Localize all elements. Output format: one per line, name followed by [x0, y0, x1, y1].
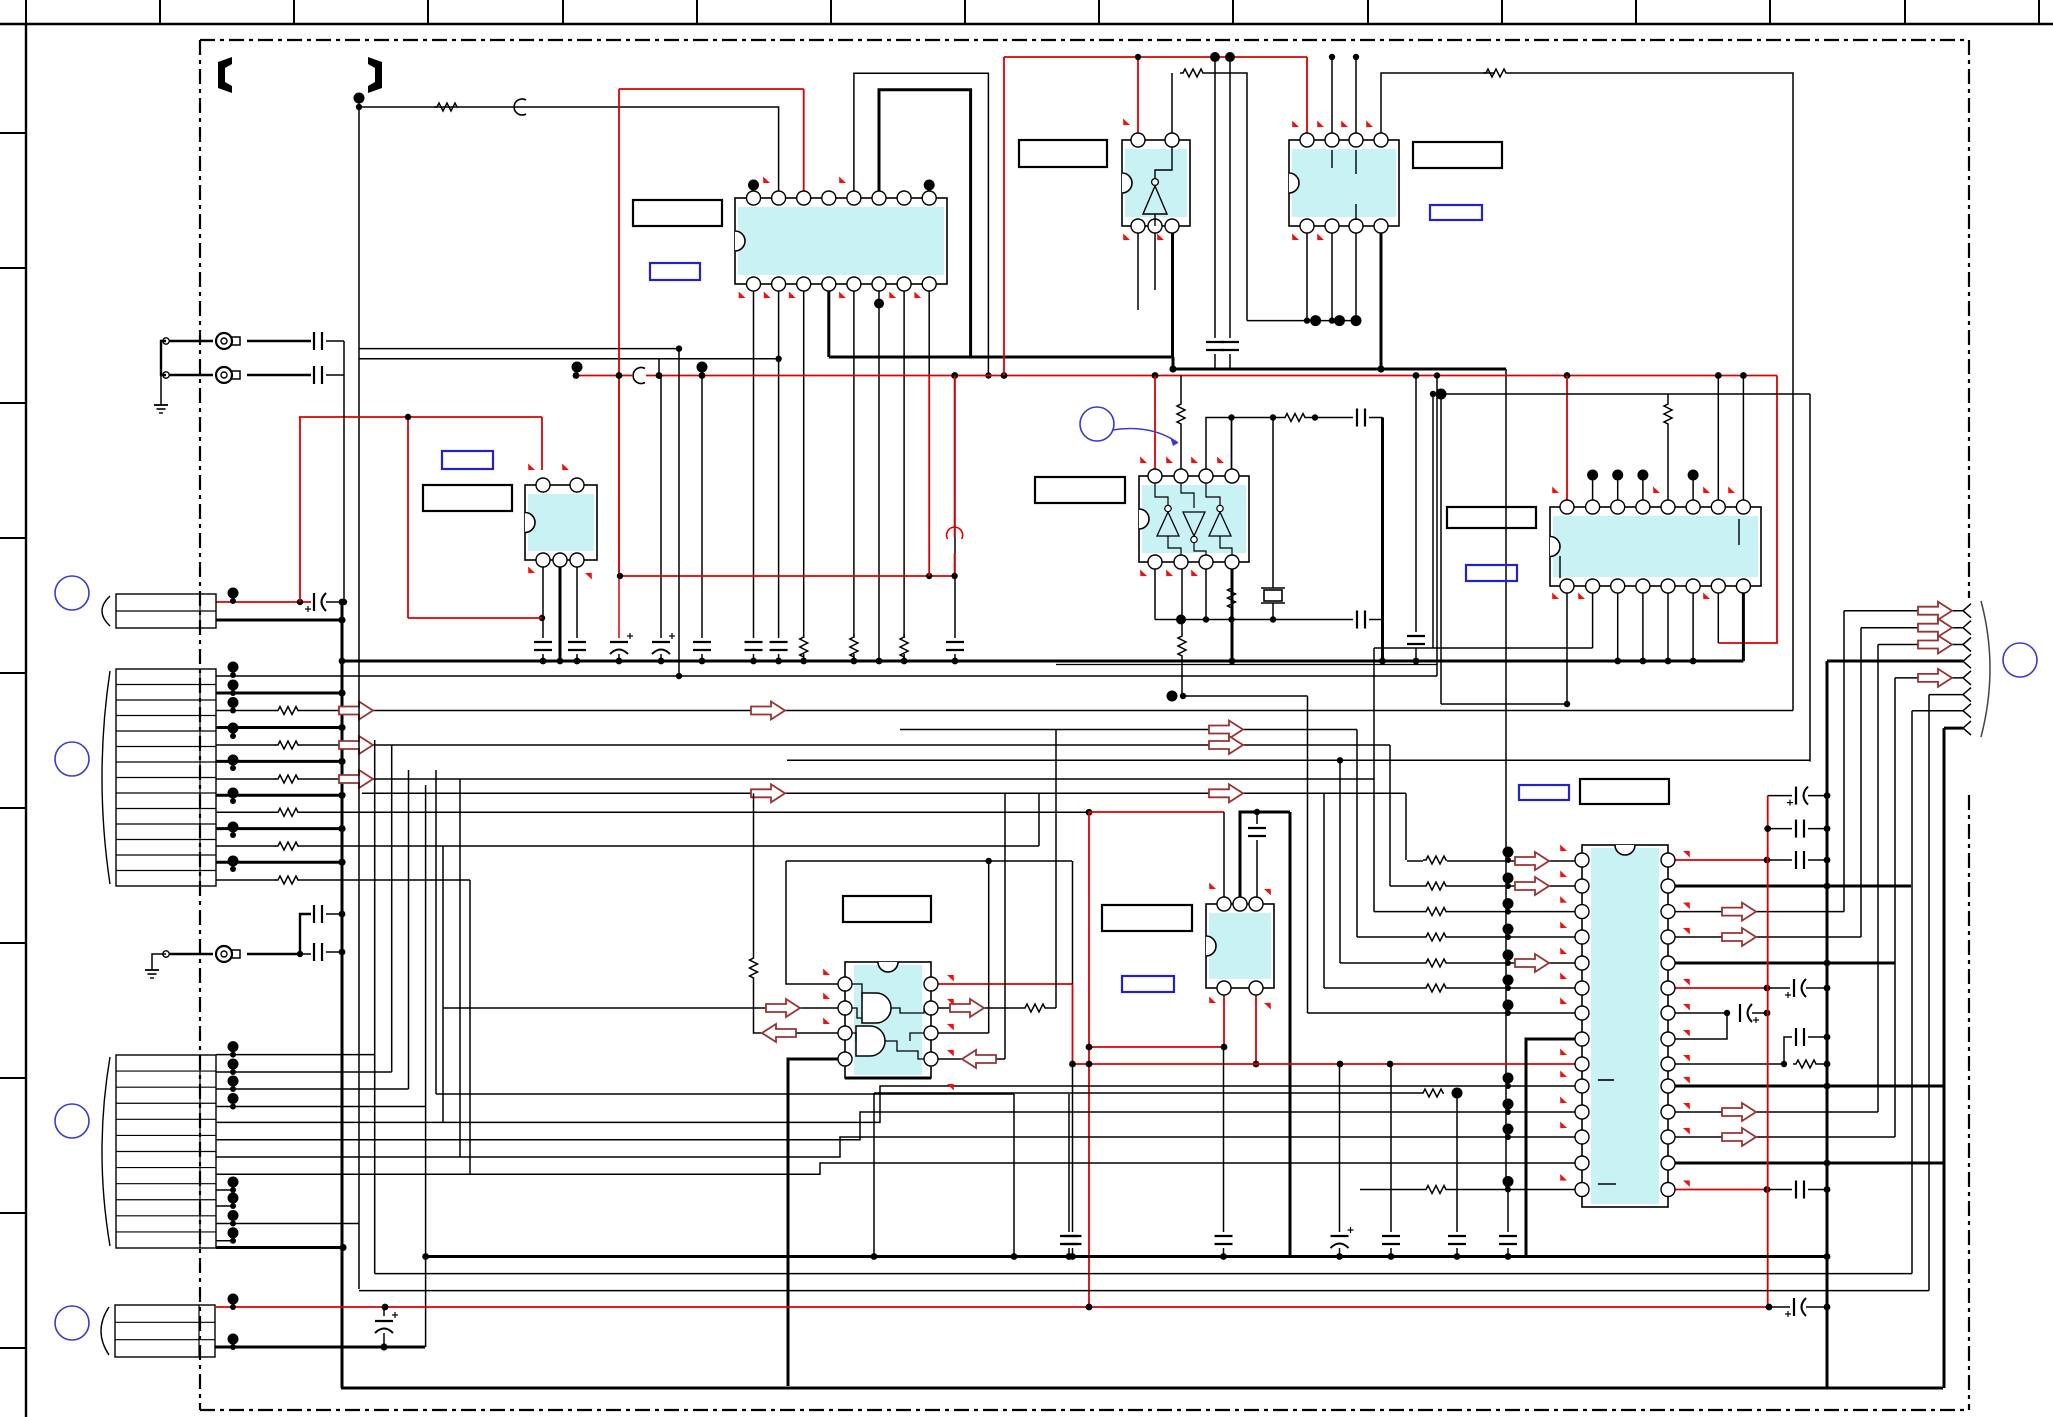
arrow IC9 in 2: [1515, 877, 1549, 895]
wire thick gnd y369: [1173, 357, 1506, 369]
part label box U2: [423, 485, 512, 511]
capacitor C-j3: [313, 905, 315, 923]
ground G2: [145, 969, 159, 971]
resistor R-r1: [1793, 1060, 1817, 1068]
inverter symbol U3: [1143, 147, 1172, 226]
red wire IC8 pin2 bottom: [1255, 995, 1257, 1064]
wire CN5 w8 thick: [1944, 727, 1963, 730]
arrow IC9 out 4: [1722, 1128, 1756, 1146]
wire y696 line: [1183, 695, 1308, 697]
arrow mid 2: [751, 784, 785, 802]
wire top-left L to IC1 pin2: [358, 98, 360, 675]
capacitor C-d1 riser: [1214, 57, 1216, 338]
capacitor C-g1 electrolytic: [1793, 1298, 1795, 1316]
crystal X1: [1272, 418, 1274, 589]
wire thick gnd y357: [829, 356, 1173, 359]
capacitor C-b6 riser x955: [954, 376, 956, 639]
note circle 3: [55, 1104, 89, 1138]
wire y348 segment: [359, 348, 679, 350]
junction dot: [874, 299, 884, 309]
red net: IC5 pin1 drop: [1154, 376, 1156, 470]
pin flags U4: [1290, 120, 1375, 242]
pin flags U5: [1138, 456, 1226, 578]
wire IC7 left pin1: [786, 861, 845, 984]
arrow CN5 2: [1918, 619, 1952, 637]
arrow CN5 5: [1918, 669, 1952, 687]
wire IC6 bottom pins: [1566, 593, 1568, 704]
red wire IC9 left pin9 handled above: [1575, 1063, 1582, 1065]
note circle 5: [2003, 643, 2037, 677]
arrow IC9 out 1: [1722, 903, 1756, 921]
ref label U8: [1122, 976, 1174, 992]
resistors feeding IC9: [1423, 856, 1447, 864]
capacitor C-r2 electrolytic: [1793, 979, 1795, 997]
connector CN4: [101, 1305, 215, 1357]
op-amp U1 16-pin IC: [735, 191, 947, 291]
capacitor C-f2: [1072, 1064, 1074, 1232]
wire IC9 right pin4: [1675, 936, 1861, 938]
wire thick y1347 CN4: [215, 1346, 425, 1349]
red bus y57 dots: [1135, 54, 1141, 60]
wire long horizontals mid: [362, 730, 1406, 794]
wire IC7 right pin4: [938, 1058, 1005, 1060]
wire IC7 left pin4 thick: [788, 1059, 838, 1386]
wire staircase verticals: [1308, 648, 1407, 1013]
connector pin dots CN1: [228, 588, 239, 599]
wire IC7 right pin2: [938, 1007, 1022, 1009]
capacitor C-d2 riser: [1229, 57, 1231, 338]
wire x1056 up: [1055, 730, 1057, 1009]
wire x1810 drop: [1809, 394, 1811, 762]
capacitor C-e3: [1407, 635, 1425, 637]
arrow mid 5: [1209, 784, 1243, 802]
capacitor C-e2: [1356, 611, 1358, 629]
inner marks U6: [1738, 519, 1740, 545]
wire IC9 right pin11: [1675, 1111, 1878, 1113]
pin flags U6: [1550, 486, 1737, 601]
capacitor C-t3: [1768, 828, 1792, 830]
red trunk x1767: [1767, 796, 1769, 1307]
arrow gate out right: [950, 999, 984, 1017]
arrow IC9 in 3: [1515, 954, 1549, 972]
red net: main bus y375: [576, 375, 1777, 377]
wire x1416 cap riser: [1415, 376, 1417, 633]
red wire IC9 right pin6: [1675, 987, 1767, 989]
wire trunk vertical x342: [341, 602, 344, 1388]
wire x1433 drop: [1432, 394, 1434, 648]
part label box U6: [1447, 507, 1536, 528]
connector CN3: [102, 1055, 216, 1248]
connector CN5 bracket: [1981, 601, 1990, 737]
wire y394 line: [1433, 393, 1810, 395]
wire x1039 riser: [1038, 793, 1040, 846]
resistors on CN2 rows: [275, 707, 299, 715]
wire IC5 bottom pins: [1154, 569, 1156, 620]
wire companion line under bus: [1056, 664, 1437, 666]
ring terminal J3: [163, 951, 169, 957]
wire IC1 pin6 thick loop: [879, 90, 971, 357]
wire IC7 left pin2: [443, 1007, 838, 1009]
arrow mid 4: [1209, 736, 1243, 754]
capacitor C-f3: [1223, 1047, 1225, 1232]
AND gate B: [856, 1026, 885, 1056]
connector CN1: [102, 594, 216, 628]
arrow CN5 3: [1918, 636, 1952, 654]
hex inverter U5: [1139, 469, 1249, 569]
wire x425 link: [422, 1253, 429, 1260]
wire CN5 w7: [1912, 710, 1963, 712]
wire x1441 drop: [1440, 394, 1442, 704]
capacitor C-r3 electrolytic: [1739, 1004, 1741, 1022]
capacitor C-j1: [313, 332, 315, 350]
reset IC U8: [1206, 897, 1274, 995]
capacitor C-r4 loop: [1784, 1037, 1792, 1064]
pin flags U8: [1207, 882, 1274, 1009]
wire bottom bus y1386: [341, 1387, 1943, 1390]
capacitor C-b1: [534, 641, 552, 643]
gate internal wires: [852, 984, 924, 1059]
inner marks U9: [1598, 1079, 1614, 1081]
pin flags U7: [821, 968, 957, 1090]
red net IC8 supply: [1089, 812, 1224, 1307]
inverter U3: [1122, 133, 1190, 233]
wire IC4 bottom risers: [1306, 233, 1308, 321]
junction dots on bus: [339, 658, 1697, 665]
ref label U4: [1430, 205, 1482, 220]
regulator U2 5-pin IC: [525, 478, 597, 567]
wire y358 segment: [359, 358, 779, 360]
red wire IC8 pin1 bottom: [1089, 995, 1224, 1047]
junction dot: [539, 615, 545, 621]
wire IC8 pin1 top: [1223, 812, 1225, 897]
wire IC9 right pin13 thick: [1675, 1162, 1943, 1165]
red net: IC2 supply loop: [299, 417, 542, 618]
wire IC1 pin8 stub: [928, 185, 930, 192]
red wire IC7 right pin1: [938, 984, 1073, 1063]
arrow IC9 out 3: [1722, 1103, 1756, 1121]
capacitor C-r5: [1795, 1181, 1797, 1199]
stub dots above bus: [576, 367, 578, 376]
frame top ruler line: [0, 23, 2053, 25]
capacitor C-f6: [1456, 1093, 1458, 1232]
arrow out 3: [339, 770, 373, 788]
arrow out 2: [339, 736, 373, 754]
ground G1: [154, 404, 168, 406]
red net: x954 vertical: [954, 376, 956, 538]
wire IC9 right pin2 thick: [1675, 885, 1911, 888]
wire x874 drop: [873, 1093, 875, 1257]
pin flags U1: [736, 176, 922, 300]
wire IC4 pin riser top: [1331, 57, 1333, 133]
capacitor C-t2: [1768, 795, 1792, 797]
capacitor C-b2: [568, 641, 586, 643]
wire IC8 pin2 thick loop: [1240, 812, 1290, 897]
part label box U1: [633, 200, 722, 226]
connector CN5 chevrons: [1963, 604, 1971, 735]
capacitor C-a2: [770, 641, 788, 643]
resistor R-e1: [1282, 414, 1306, 422]
pin flags U9: [1558, 844, 1693, 1187]
capacitor C-cn1 electrolytic: [313, 593, 315, 611]
junction dot: [986, 858, 992, 864]
AND gate A: [862, 993, 891, 1023]
ref label U9: [1519, 785, 1569, 800]
red net: top-left feed to IC1 pin3: [619, 89, 804, 576]
wire hop: [514, 99, 526, 115]
wire IC1 pin1 stub: [753, 185, 755, 192]
wire IC8 pin3 cap: [1256, 812, 1258, 824]
wire x1072 black segment: [1072, 861, 1074, 984]
wire CN2 row wires: [216, 676, 1793, 880]
connector pin dots CN2: [228, 662, 239, 873]
pin flags U3: [1121, 118, 1166, 242]
wire ring3 up loop: [300, 914, 311, 954]
wire y648: [1374, 647, 1593, 649]
capacitor C-b3 riser x619: [618, 376, 620, 639]
note circle 6: [1080, 407, 1114, 441]
junction dot: [354, 93, 365, 104]
resistor R-a2: [850, 634, 858, 658]
capacitor C-a1: [745, 641, 763, 643]
inner marks U4: [1331, 150, 1333, 168]
arrow into gate right: [962, 1050, 996, 1068]
part label box U7: [843, 896, 931, 922]
capacitor C-j2: [313, 366, 315, 384]
wire x1231 resistor chain: [1231, 418, 1233, 586]
wire bottom bus y1256: [425, 1255, 1827, 1258]
connector CN2: [102, 669, 216, 886]
wire IC6 top stubs: [1587, 470, 1699, 501]
driver U4 8-pin IC: [1289, 133, 1399, 233]
wire IC1 pin5 loop: [854, 73, 989, 375]
junction pin dots IC9 left: [1503, 847, 1514, 1141]
wire y417 to cap: [1306, 417, 1353, 419]
wire IC9 right pin10 thick: [1675, 1085, 1943, 1088]
wire y320 junction line: [1247, 320, 1356, 322]
arrow into gate: [766, 999, 800, 1017]
ref label U6: [1466, 565, 1517, 581]
connector pin dots CN3: [228, 1041, 347, 1251]
wire IC9 right pin7 cap loop: [1675, 1012, 1727, 1014]
wire IC9 right pin8: [1675, 1013, 1727, 1039]
resistor R-a3: [900, 634, 908, 658]
red net: IC6 pin1 drop: [1566, 376, 1568, 501]
wire IC3 bottom risers: [1137, 233, 1139, 310]
capacitor C-g2 electrolytic vertical: [383, 1307, 385, 1316]
wire IC9 right pin5 thick: [1675, 962, 1895, 965]
arrow IC9 in 1: [1515, 852, 1549, 870]
wire hop on red bus: [633, 368, 645, 384]
main IC U9 28-pin: [1575, 845, 1675, 1207]
wire CN3 rows: [216, 1055, 426, 1248]
wire IC3 pin2 resistor loop: [1171, 73, 1173, 147]
wire x344 drop: [343, 341, 345, 602]
red bus junction dots: [573, 372, 1747, 379]
ref label U1: [650, 263, 700, 280]
wire hop vertical on x954: [947, 527, 963, 539]
ring terminal J1: [163, 338, 169, 344]
red net: y57 bus: [1004, 57, 1307, 376]
capacitor C-e1: [1356, 409, 1358, 427]
wire CN3 jog lines to IC9: [216, 1086, 1575, 1174]
part label box U4: [1413, 142, 1502, 168]
wire CN1 row2 thick: [216, 619, 342, 622]
frame left ruler ticks: [0, 133, 26, 1348]
wire CN5 w5: [1895, 677, 1963, 679]
wire x1005 up: [1004, 793, 1006, 1059]
wire CN5 w4 thick: [1827, 660, 1963, 663]
ring terminal J2: [163, 372, 169, 378]
red net: IC1 pin8 bottom riser: [928, 376, 930, 577]
resistor R-a1: [800, 634, 808, 658]
wire y73 to x1793: [1507, 73, 1793, 711]
part label box U8: [1102, 905, 1192, 931]
note circle 1: [55, 576, 89, 610]
part label box U3: [1019, 140, 1107, 167]
red bus bottom y1307: [216, 1306, 1769, 1308]
red wire IC9 right pin14: [1675, 1189, 1767, 1191]
junction dots trunk: [1824, 857, 1831, 864]
wire x1382 thick: [1381, 418, 1384, 662]
wire IC5 pin3 top loop: [1206, 418, 1282, 470]
inverter symbols U5: [1155, 483, 1232, 555]
capacitor C-f1: [1068, 1094, 1070, 1232]
arrow mid 1: [751, 702, 785, 720]
note pointer curve: [1112, 429, 1178, 443]
wire IC9 left pin lines: [786, 861, 1575, 1013]
part label box U5: [1035, 477, 1125, 503]
wire y1093 line: [874, 1092, 1420, 1094]
logic gate U7: [838, 962, 938, 1078]
wire CN5 w1: [1844, 610, 1963, 612]
note circle 4: [55, 1306, 89, 1340]
resistor R-top2: [1483, 69, 1507, 77]
wire IC7 left pin3: [754, 979, 839, 1033]
note circle 2: [55, 742, 89, 776]
red wire IC6 pin7: [1717, 593, 1719, 643]
wire x988 up: [988, 861, 990, 1033]
wire y704: [1441, 703, 1567, 705]
wire IC6 pin5 resistor up: [1667, 425, 1669, 500]
audio IC U6 16-pin: [1550, 500, 1761, 593]
wire IC9 right pin9: [1675, 1063, 1784, 1065]
arrow CN5 1: [1918, 602, 1952, 620]
capacitor C-r1: [1795, 851, 1797, 869]
frame top ruler ticks: [26, 0, 2039, 24]
wire IC9 right pin12: [1675, 1136, 1895, 1138]
wire y760 line: [787, 759, 1810, 761]
arrow out of gate left: [762, 1024, 796, 1042]
wire mid verticals from CN3: [359, 675, 470, 1347]
wire IC6 pin8 thick: [1742, 593, 1745, 661]
resistor R-top1: [434, 103, 458, 111]
board name brackets: [218, 57, 232, 93]
wire CN5 w6: [1929, 694, 1963, 696]
red wire IC9 right pin1: [1675, 859, 1767, 861]
wire power bus y661: [342, 660, 1743, 663]
wire IC6 pins7-8 top: [1717, 376, 1719, 501]
pin flags U2: [526, 463, 595, 579]
wire IC1 bottom risers: [754, 290, 930, 661]
wire IC7 right pin3: [938, 1032, 989, 1034]
wire below-bus lines: [375, 1273, 1912, 1275]
junction dot: [1254, 809, 1260, 815]
wire x1506 long vertical: [1505, 369, 1507, 1190]
capacitor C-f5: [1390, 1064, 1392, 1232]
red net: drop to IC6 pin7: [1718, 376, 1777, 644]
arrow mid 3: [1209, 721, 1243, 739]
frame left ruler line: [25, 24, 27, 1417]
wire ring ground link: [161, 341, 166, 375]
ref label U2: [442, 451, 493, 469]
wire y1094: [436, 1093, 1014, 1095]
wire x1437 drop to y676: [1436, 376, 1438, 677]
arrow out 1: [339, 702, 373, 720]
wire IC9 left pin8 thick: [1526, 1039, 1575, 1257]
red net long y1064: [1073, 1063, 1583, 1065]
red net: CN1 row1: [216, 601, 311, 603]
capacitor C-b4 riser x661: [660, 376, 662, 639]
capacitor C-f4 electrolytic: [1339, 1064, 1341, 1232]
wire IC5 pin4 drop: [1231, 418, 1233, 470]
capacitor C-t1: [1790, 862, 1792, 864]
wire x659 stub: [658, 359, 660, 376]
red net: y576 horizontal: [619, 575, 955, 577]
wire IC5 pin2 resistor: [1180, 376, 1182, 402]
wire CN5 w2: [1861, 627, 1963, 629]
wire CN5 w3: [1878, 644, 1963, 646]
wire CN4 pins: [228, 1294, 239, 1305]
arrow IC9 out 2: [1722, 928, 1756, 946]
wire IC9 right pin3: [1675, 911, 1844, 913]
wire y619 line: [1155, 619, 1353, 621]
capacitors on right trunk x1827: [0, 0, 1, 1]
wire x679 drop: [678, 349, 680, 676]
capacitor C-f7: [1507, 1190, 1509, 1233]
wire ring3 ground: [152, 954, 166, 970]
junction dots y417: [1228, 414, 1234, 420]
wire IC9 pin14 line: [1360, 1189, 1423, 1191]
capacitor C-j4: [313, 943, 315, 961]
wire IC2 pin risers bottom: [542, 567, 544, 638]
capacitor C-b5 riser x702: [701, 376, 703, 639]
wire x1014: [1013, 1094, 1015, 1257]
part label box U9: [1580, 779, 1669, 804]
